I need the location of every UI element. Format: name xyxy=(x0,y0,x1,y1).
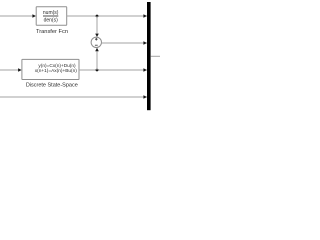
arrowhead into Transfer Fcn xyxy=(32,14,36,18)
arrowhead into mux port 1 xyxy=(143,14,147,18)
junction node on top wire xyxy=(96,15,99,18)
arrowhead into mux port 2 xyxy=(143,41,147,45)
fraction bar xyxy=(43,15,58,17)
wire input to Transfer Fcn xyxy=(0,15,33,17)
svg-text:Transfer Fcn: Transfer Fcn xyxy=(36,29,68,35)
junction node on state-space output wire xyxy=(96,69,99,72)
wire branch up to sum minus input xyxy=(96,51,98,70)
plus sign xyxy=(95,38,98,41)
wire branch down to sum xyxy=(96,16,98,34)
discrete state-space block U2 xyxy=(22,59,79,79)
svg-text:x(n+1)=Ax(n)+Bu(n): x(n+1)=Ax(n)+Bu(n) xyxy=(35,68,78,74)
mux output wire xyxy=(151,55,160,57)
bottom wire to mux port 4 xyxy=(0,96,147,98)
arrowhead into sum top xyxy=(95,34,99,37)
wire Discrete State-Space output to mux port 3 xyxy=(79,69,147,71)
arrowhead into mux port 3 xyxy=(143,68,147,72)
sum block circle xyxy=(91,37,101,47)
mux bar xyxy=(147,2,151,110)
arrowhead into sum bottom xyxy=(95,48,99,51)
wire input to Discrete State-Space xyxy=(0,69,19,71)
svg-text:num(s): num(s) xyxy=(43,10,59,16)
svg-text:den(s): den(s) xyxy=(44,17,59,23)
minus sign xyxy=(95,44,98,46)
transfer function block U1 xyxy=(36,7,66,25)
wire Transfer Fcn output to mux port 1 xyxy=(67,15,147,17)
svg-text:Discrete State-Space: Discrete State-Space xyxy=(26,82,78,88)
wire sum output to mux port 2 xyxy=(102,42,147,44)
arrowhead into Discrete State-Space xyxy=(18,68,22,72)
arrowhead into mux port 4 xyxy=(143,95,147,99)
